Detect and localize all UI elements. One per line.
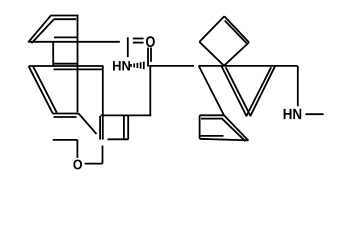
ring A outer diagonal xyxy=(28,16,51,43)
triangle ring right inner edge xyxy=(246,67,271,116)
diamond right-top outer edge xyxy=(224,16,249,42)
ring D left double bond a xyxy=(99,116,101,140)
ring A right vertical xyxy=(77,16,79,113)
long horizontal to right (right part) xyxy=(199,65,298,67)
chiral C down vertical xyxy=(149,66,151,115)
triangle ring left inner edge xyxy=(226,67,251,116)
lower quad inner bottom edge xyxy=(201,135,224,137)
hashed wedge bond xyxy=(131,62,144,70)
ring A inner diagonal xyxy=(32,19,54,43)
ring A bottom long horizontal xyxy=(28,41,120,43)
long horizontal to right (left part) xyxy=(149,65,194,67)
O-C double vertical a xyxy=(147,48,149,67)
steep bond to lower ring xyxy=(199,66,224,115)
lower quad inner top edge xyxy=(201,118,222,120)
ring A inner bottom xyxy=(54,36,77,38)
ether O label xyxy=(73,160,82,170)
ring A top edge xyxy=(50,15,78,17)
ethyl vertical xyxy=(76,140,78,158)
C=O double bond b xyxy=(133,42,144,44)
amide HN label xyxy=(113,61,130,70)
ring C inner top xyxy=(54,68,103,70)
ring D top edge xyxy=(101,114,152,116)
ring C top horizontal xyxy=(29,65,104,67)
N-methyl bond xyxy=(305,113,323,115)
ring C inner left diagonal xyxy=(33,66,57,112)
lower quad top edge xyxy=(200,114,224,116)
ring C outer left diagonal xyxy=(29,66,53,113)
O-C double vertical b xyxy=(150,48,152,62)
ring D left double bond b xyxy=(102,116,104,140)
diamond right-top inner edge xyxy=(225,21,247,43)
ring A inner top edge xyxy=(54,18,76,20)
C=O double bond a xyxy=(133,38,144,40)
diamond right-bottom edge xyxy=(224,42,249,65)
ring B left vertical xyxy=(52,42,54,66)
bond O to CH2 corner xyxy=(85,163,103,165)
triangle ring right outer edge xyxy=(250,66,275,116)
diamond left-bottom edge xyxy=(199,42,224,66)
lower quad left edge xyxy=(199,115,201,139)
ring D right double bond b xyxy=(127,116,129,140)
ring C bottom edge xyxy=(52,113,78,115)
N-H vertical bond right xyxy=(297,66,299,106)
triangle ring left outer edge xyxy=(221,66,246,116)
lower quad bottom edge xyxy=(200,139,249,141)
lower quad right inner diagonal xyxy=(222,118,246,141)
ring D bottom edge xyxy=(108,138,129,140)
bond to ring D xyxy=(79,113,97,134)
amide C-N vertical xyxy=(127,37,129,57)
ring C right vertical xyxy=(102,66,104,115)
ring C inner bottom edge xyxy=(54,116,77,118)
ring D right double bond a xyxy=(123,116,125,140)
lower quad right outer diagonal xyxy=(224,115,248,140)
ethyl top horizontal xyxy=(53,139,78,141)
carbonyl O label xyxy=(146,36,155,47)
methylamine HN label xyxy=(284,109,302,119)
bond ring D to O xyxy=(102,146,104,164)
ring B inner bottom xyxy=(54,63,79,65)
diamond left-top edge xyxy=(199,16,224,42)
